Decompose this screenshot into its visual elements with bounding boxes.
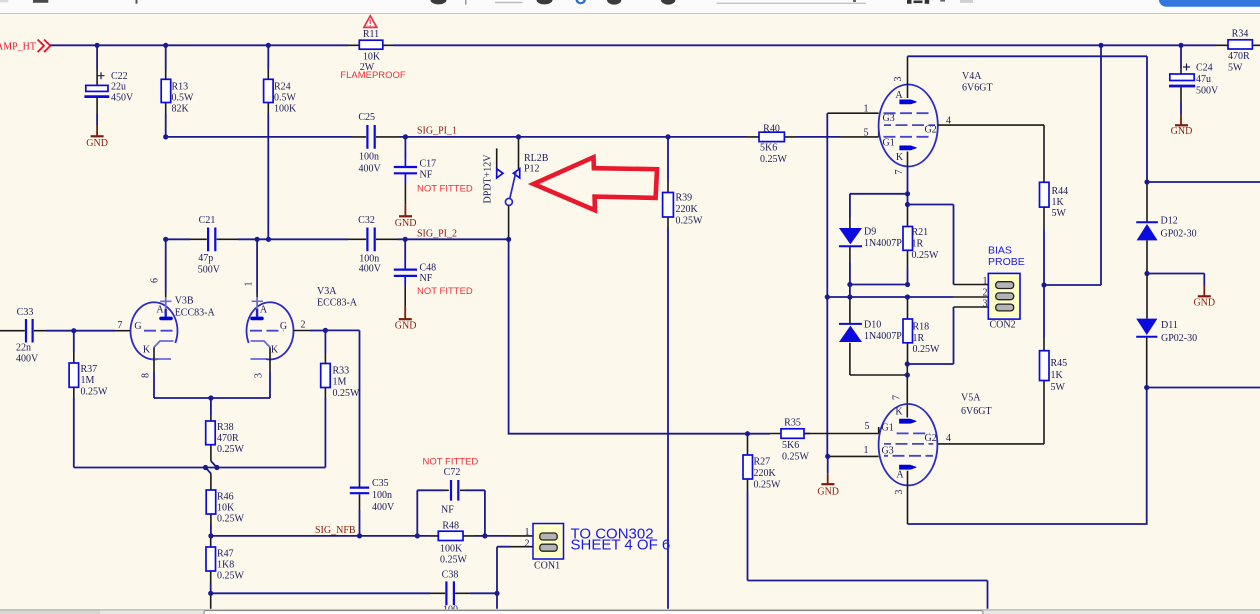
svg-text:470R: 470R [217,433,239,444]
svg-text:CON2: CON2 [990,320,1016,331]
wire R18 junction to CON2 pin3 [907,307,953,364]
wire x=827 vertical (G3 net) [826,113,828,456]
svg-text:P12: P12 [524,164,540,175]
svg-text:400V: 400V [372,502,395,513]
svg-text:6: 6 [150,278,161,283]
junction D11 / output row [1144,385,1149,390]
connector CON2 [983,245,1025,331]
svg-text:GND: GND [817,486,839,497]
svg-text:NOT FITTED: NOT FITTED [417,286,473,297]
resistor R45 [1040,285,1068,444]
junction SIG_NFB / R48 left [415,533,420,538]
wire R48 to CON1 pin1 [485,535,510,537]
wire V3A pin2 lead [294,330,311,332]
svg-text:3: 3 [893,77,904,82]
svg-text:R21: R21 [912,227,929,238]
bottom scrollbar strip [0,609,1260,614]
wire cathode row V3B/V3A [154,372,270,398]
resistor R27 [743,434,988,609]
svg-text:1: 1 [244,282,255,287]
svg-text:1R: 1R [912,239,924,250]
junction SIG_PI_2 / C48 [403,237,408,242]
resistor R44 [1040,182,1069,285]
wire right column x=1147 [1147,56,1260,182]
svg-text:400V: 400V [16,354,39,365]
svg-text:V3B: V3B [175,295,194,306]
svg-text:22n: 22n [16,343,31,354]
svg-text:C32: C32 [358,215,375,226]
junction R21 bottom [905,282,910,287]
toolbar icon fragments [0,0,1260,7]
capacitor C25 [352,112,399,175]
wire V5A pin5 lead [804,427,879,434]
capacitor C17 (NF) [394,137,473,205]
svg-text:R48: R48 [442,521,459,532]
svg-text:R45: R45 [1051,358,1068,369]
svg-text:BIAS: BIAS [988,245,1012,257]
svg-text:22u: 22u [111,82,126,93]
svg-text:C25: C25 [358,112,375,123]
resistor R11 [340,29,406,81]
svg-text:400V: 400V [359,163,382,174]
svg-text:R24: R24 [274,82,291,93]
junction SIG_NFB / R46-R47 [208,533,213,538]
svg-text:220K: 220K [676,204,699,215]
svg-text:1M: 1M [333,377,347,388]
diode D12 [1136,182,1196,274]
svg-text:3: 3 [254,373,265,378]
resistor R46 [206,474,244,536]
svg-text:0.5W: 0.5W [172,93,195,104]
svg-text:4: 4 [946,433,951,444]
wire SIG_NFB row [211,535,430,537]
svg-text:R38: R38 [217,422,234,433]
wire C38 row [211,593,497,609]
ground (D12/D11 junction) [1147,273,1215,308]
capacitor C21 [190,215,238,275]
wire V4A anode top row [908,55,1148,57]
svg-text:1N4007P: 1N4007P [864,331,902,342]
junction SIG_PI_1 / R39 [665,134,670,139]
junction C38 / CON1 pin2 [494,591,499,596]
svg-text:10K: 10K [217,503,235,514]
svg-text:G2: G2 [925,433,937,444]
ground (V5A G3 junction) [817,456,839,497]
svg-text:A: A [156,305,164,316]
svg-text:500V: 500V [198,264,221,275]
svg-text:D12: D12 [1161,216,1178,227]
svg-text:8: 8 [141,373,152,378]
wire R47 below junction [210,593,212,609]
resistor R37 [69,331,108,468]
svg-text:R37: R37 [81,364,98,375]
svg-text:82K: 82K [172,104,190,115]
warning triangle [364,16,377,28]
junction SIG_PI_1 / relay [516,134,521,139]
svg-text:R18: R18 [913,322,930,333]
svg-text:R33: R33 [333,366,350,377]
resistor R24 [264,45,297,239]
junction R18 bottom / CON2 pin3 [905,361,910,366]
svg-text:2: 2 [525,538,530,549]
svg-text:GND: GND [1193,297,1215,308]
svg-text:G3: G3 [882,446,894,457]
wire SIG_PI_1 row [166,136,840,138]
junction SIG_PI_2 / relay pole [506,237,511,242]
wire CON1 pin2 lead [497,547,510,594]
svg-text:DPDT+12V: DPDT+12V [483,154,494,204]
svg-text:3: 3 [983,299,988,310]
svg-text:AMP_HT: AMP_HT [0,42,36,53]
svg-text:A: A [260,305,268,316]
svg-text:0.25W: 0.25W [217,571,245,582]
svg-text:C72: C72 [444,467,461,478]
svg-text:0.25W: 0.25W [913,344,941,355]
svg-text:C17: C17 [420,159,437,170]
svg-text:5: 5 [865,421,870,432]
svg-text:SIG_PI_2: SIG_PI_2 [417,229,457,240]
svg-text:0.25W: 0.25W [760,154,788,165]
junction R48 right [482,533,487,538]
svg-text:GND: GND [86,138,108,149]
svg-text:K: K [896,152,904,163]
wire G3-net row to CON2 pin2 [827,296,953,298]
capacitor C24 [1169,45,1219,102]
svg-text:R39: R39 [676,193,693,204]
svg-text:7: 7 [118,320,123,331]
junction V3A grid / R33 [323,328,328,333]
junction HT rail / R44 branch [1098,43,1103,48]
junction R18 top [905,294,910,299]
svg-text:2: 2 [983,287,988,298]
wire D11 down to V5A anode row [908,388,1147,525]
svg-text:G3: G3 [883,113,895,124]
svg-text:C24: C24 [1196,63,1213,74]
junction C33 / R37 [71,328,76,333]
resistor R38 [206,398,245,474]
svg-text:CON1: CON1 [534,561,560,572]
svg-text:1K: 1K [1052,197,1065,208]
resistor R47 [206,536,245,593]
diode D11 [1136,274,1197,388]
svg-text:500V: 500V [1196,86,1219,97]
svg-text:R40: R40 [763,124,780,135]
junction R37-R33 row right [214,465,219,470]
svg-text:NOT FITTED: NOT FITTED [423,457,479,468]
junction V5A G3 / GND [825,454,830,459]
svg-text:D9: D9 [864,227,876,238]
svg-text:100n: 100n [359,152,379,163]
capacitor C48 (NF) [394,239,473,307]
svg-text:0.25W: 0.25W [912,250,940,261]
resistor R48 [430,521,485,566]
svg-text:0.25W: 0.25W [81,387,109,398]
svg-text:R34: R34 [1232,29,1249,40]
svg-text:10K: 10K [363,52,381,63]
svg-text:V5A: V5A [961,393,981,404]
wire D9 branch row [850,194,908,218]
svg-text:NF: NF [420,273,433,284]
svg-text:R13: R13 [172,82,189,93]
tube V3B [118,239,216,378]
svg-text:R47: R47 [217,549,234,560]
svg-text:1: 1 [864,445,869,456]
svg-text:0.5W: 0.5W [274,93,297,104]
svg-text:0.25W: 0.25W [440,555,468,566]
svg-text:1R: 1R [913,333,925,344]
wire D11 junction row right [1147,387,1260,389]
svg-text:5W: 5W [1051,382,1066,393]
wire C33 junction to V3B grid [74,330,115,332]
wire V4A pin1/G3 lead [827,112,878,114]
svg-text:RL2B: RL2B [524,153,549,164]
capacitor C38 [430,570,470,614]
svg-text:C38: C38 [442,570,459,581]
junction V4A cathode / R21 [905,202,910,207]
svg-text:400V: 400V [359,263,382,274]
port AMP_HT [0,40,50,53]
capacitor C22 [84,45,134,113]
toolbar background [0,0,1260,14]
wire V4A cathode column junctions [908,167,954,285]
svg-text:1: 1 [525,527,530,538]
svg-text:C21: C21 [199,215,216,226]
svg-text:K: K [271,345,279,356]
svg-text:0.25W: 0.25W [782,452,810,463]
svg-text:0.25W: 0.25W [217,514,245,525]
svg-text:2: 2 [301,320,306,331]
wire relay pole down to R35 row [509,239,746,433]
svg-text:G1: G1 [882,423,894,434]
ground (C22) [86,114,108,150]
svg-text:5: 5 [864,128,869,139]
ground (C24) [1171,103,1193,137]
svg-text:100K: 100K [440,544,463,555]
connector CON1 [525,524,564,572]
svg-text:GND: GND [1171,126,1193,137]
svg-text:R11: R11 [363,29,379,40]
svg-text:FLAMEPROOF: FLAMEPROOF [340,70,406,81]
svg-text:GND: GND [395,320,417,331]
relay RL2B [483,137,549,239]
svg-text:ECC83-A: ECC83-A [175,307,216,318]
junction R37-R33 row left [203,465,208,470]
junction HT rail / C24 [1178,43,1183,48]
resistor R21 [903,205,939,285]
svg-text:5K6: 5K6 [760,143,777,154]
svg-text:R44: R44 [1052,186,1069,197]
svg-text:6V6GT: 6V6GT [961,406,992,417]
wire V4A pin4 to R44 [938,125,1044,182]
junction V4A cathode / D9 [905,191,910,196]
svg-text:G2: G2 [925,125,937,136]
svg-text:1M: 1M [81,375,95,386]
svg-text:470R: 470R [1228,51,1250,62]
svg-text:G: G [134,321,141,332]
svg-text:100K: 100K [274,104,297,115]
wire D9/R21 bottom row [850,262,908,297]
junction SIG_PI_2 / V3A anode [255,237,260,242]
svg-text:G: G [280,321,287,332]
svg-text:0.25W: 0.25W [676,216,704,227]
tube V4A [864,56,993,174]
svg-text:3: 3 [894,490,905,495]
label TO CON302 [571,526,671,554]
svg-text:450V: 450V [111,93,134,104]
wire R37-R33 bottom row [74,467,326,469]
junction R44-R45 [1041,282,1046,287]
svg-text:D10: D10 [864,320,881,331]
svg-text:NF: NF [420,170,433,181]
svg-text:GND: GND [395,218,417,229]
svg-text:G1: G1 [883,138,895,149]
resistor R33 [321,330,360,467]
diode D9 [839,218,902,262]
svg-text:SHEET 4 OF 6: SHEET 4 OF 6 [571,537,671,554]
resistor R35 [748,418,811,463]
junction HT rail / C22 [95,43,100,48]
junction D10 bottom / V5A pin7 [905,372,910,377]
junction anode row / D12 [1144,179,1149,184]
wire CON2 pin1 lead [954,284,997,286]
resistor R40 [746,124,796,166]
svg-text:SIG_PI_1: SIG_PI_1 [417,126,457,137]
wire V5A pin1 lead [828,455,879,457]
diode D10 [839,297,902,375]
junction SIG_PI_2 / R24 [266,237,271,242]
junction SIG_NFB / C35 [357,533,362,538]
junction SIG_PI_1 / R13 [163,134,168,139]
capacitor C33 [0,307,74,365]
svg-text:5K6: 5K6 [782,440,799,451]
svg-text:NF: NF [441,505,454,516]
svg-text:R27: R27 [754,457,771,468]
ground (C17) [395,205,417,229]
svg-text:V4A: V4A [962,71,982,82]
svg-text:PROBE: PROBE [988,256,1025,268]
junction HT rail / R24 [266,43,271,48]
resistor R13 [161,45,194,137]
svg-text:47p: 47p [198,253,213,264]
resistor R39 [663,137,703,609]
junction R47 / C38 row [208,591,213,596]
junction R35 / R27 [745,431,750,436]
red arrow [534,157,658,210]
junction D12-D11 / GND [1144,271,1149,276]
svg-text:D11: D11 [1161,320,1178,331]
svg-text:A: A [895,90,903,101]
resistor R34 [1216,29,1260,74]
svg-text:K: K [895,407,903,418]
svg-text:C48: C48 [420,263,437,274]
svg-text:0.25W: 0.25W [754,480,782,491]
wire SIG_PI_2 / C21 row [166,238,509,240]
junction cathode row / R38 [208,395,213,400]
junction SIG_PI_1 / C17 [403,134,408,139]
svg-text:R35: R35 [784,418,801,429]
svg-text:SIG_NFB: SIG_NFB [315,525,356,536]
svg-text:100n: 100n [372,490,392,501]
junction G3 net [825,294,830,299]
svg-text:1K: 1K [1051,370,1064,381]
svg-text:0.25W: 0.25W [217,444,245,455]
svg-text:1K8: 1K8 [217,560,234,571]
svg-text:GP02-30: GP02-30 [1161,229,1197,240]
wire V4A pin5 lead [840,130,879,137]
svg-text:5W: 5W [1052,208,1067,219]
junction SIG_PI_2 / V3B anode [163,237,168,242]
wire R33 junction to C35 [325,330,359,482]
svg-text:NOT FITTED: NOT FITTED [417,184,473,195]
svg-text:220K: 220K [754,468,777,479]
svg-text:C35: C35 [372,478,389,489]
svg-text:7: 7 [892,395,903,400]
svg-text:R46: R46 [217,492,234,503]
capacitor C72 (NF) loop [417,457,485,536]
wire R45 to V5A pin4 [938,443,1044,445]
svg-text:1: 1 [983,276,988,287]
ground (C48) [395,307,417,332]
svg-text:C33: C33 [17,307,34,318]
svg-text:V3A: V3A [317,286,337,297]
resistor R18 [903,297,940,364]
junction HT rail / R13 [163,43,168,48]
wire R11 stubs [348,44,394,46]
svg-text:GP02-30: GP02-30 [1161,333,1197,344]
wire HT rail [50,44,1216,46]
capacitor C32 [348,215,398,274]
junction D9 / R21 row [847,282,852,287]
svg-text:K: K [143,345,151,356]
svg-text:6V6GT: 6V6GT [962,83,993,94]
capacitor C35 [350,478,395,536]
tube V5A [864,393,992,525]
junction D10 top [847,294,852,299]
svg-text:5W: 5W [1228,63,1243,74]
svg-text:ECC83-A: ECC83-A [317,298,358,309]
svg-text:0.25W: 0.25W [333,388,361,399]
svg-text:1N4007P: 1N4007P [864,238,902,249]
wire D10 row to V5A pin7 [850,364,907,407]
svg-text:C22: C22 [111,71,128,82]
svg-text:A: A [896,470,904,481]
tube V3A [244,239,358,378]
svg-text:47u: 47u [1196,74,1211,85]
svg-text:7: 7 [894,170,905,175]
wire R44/R45 junction to HT rail [1044,45,1101,285]
